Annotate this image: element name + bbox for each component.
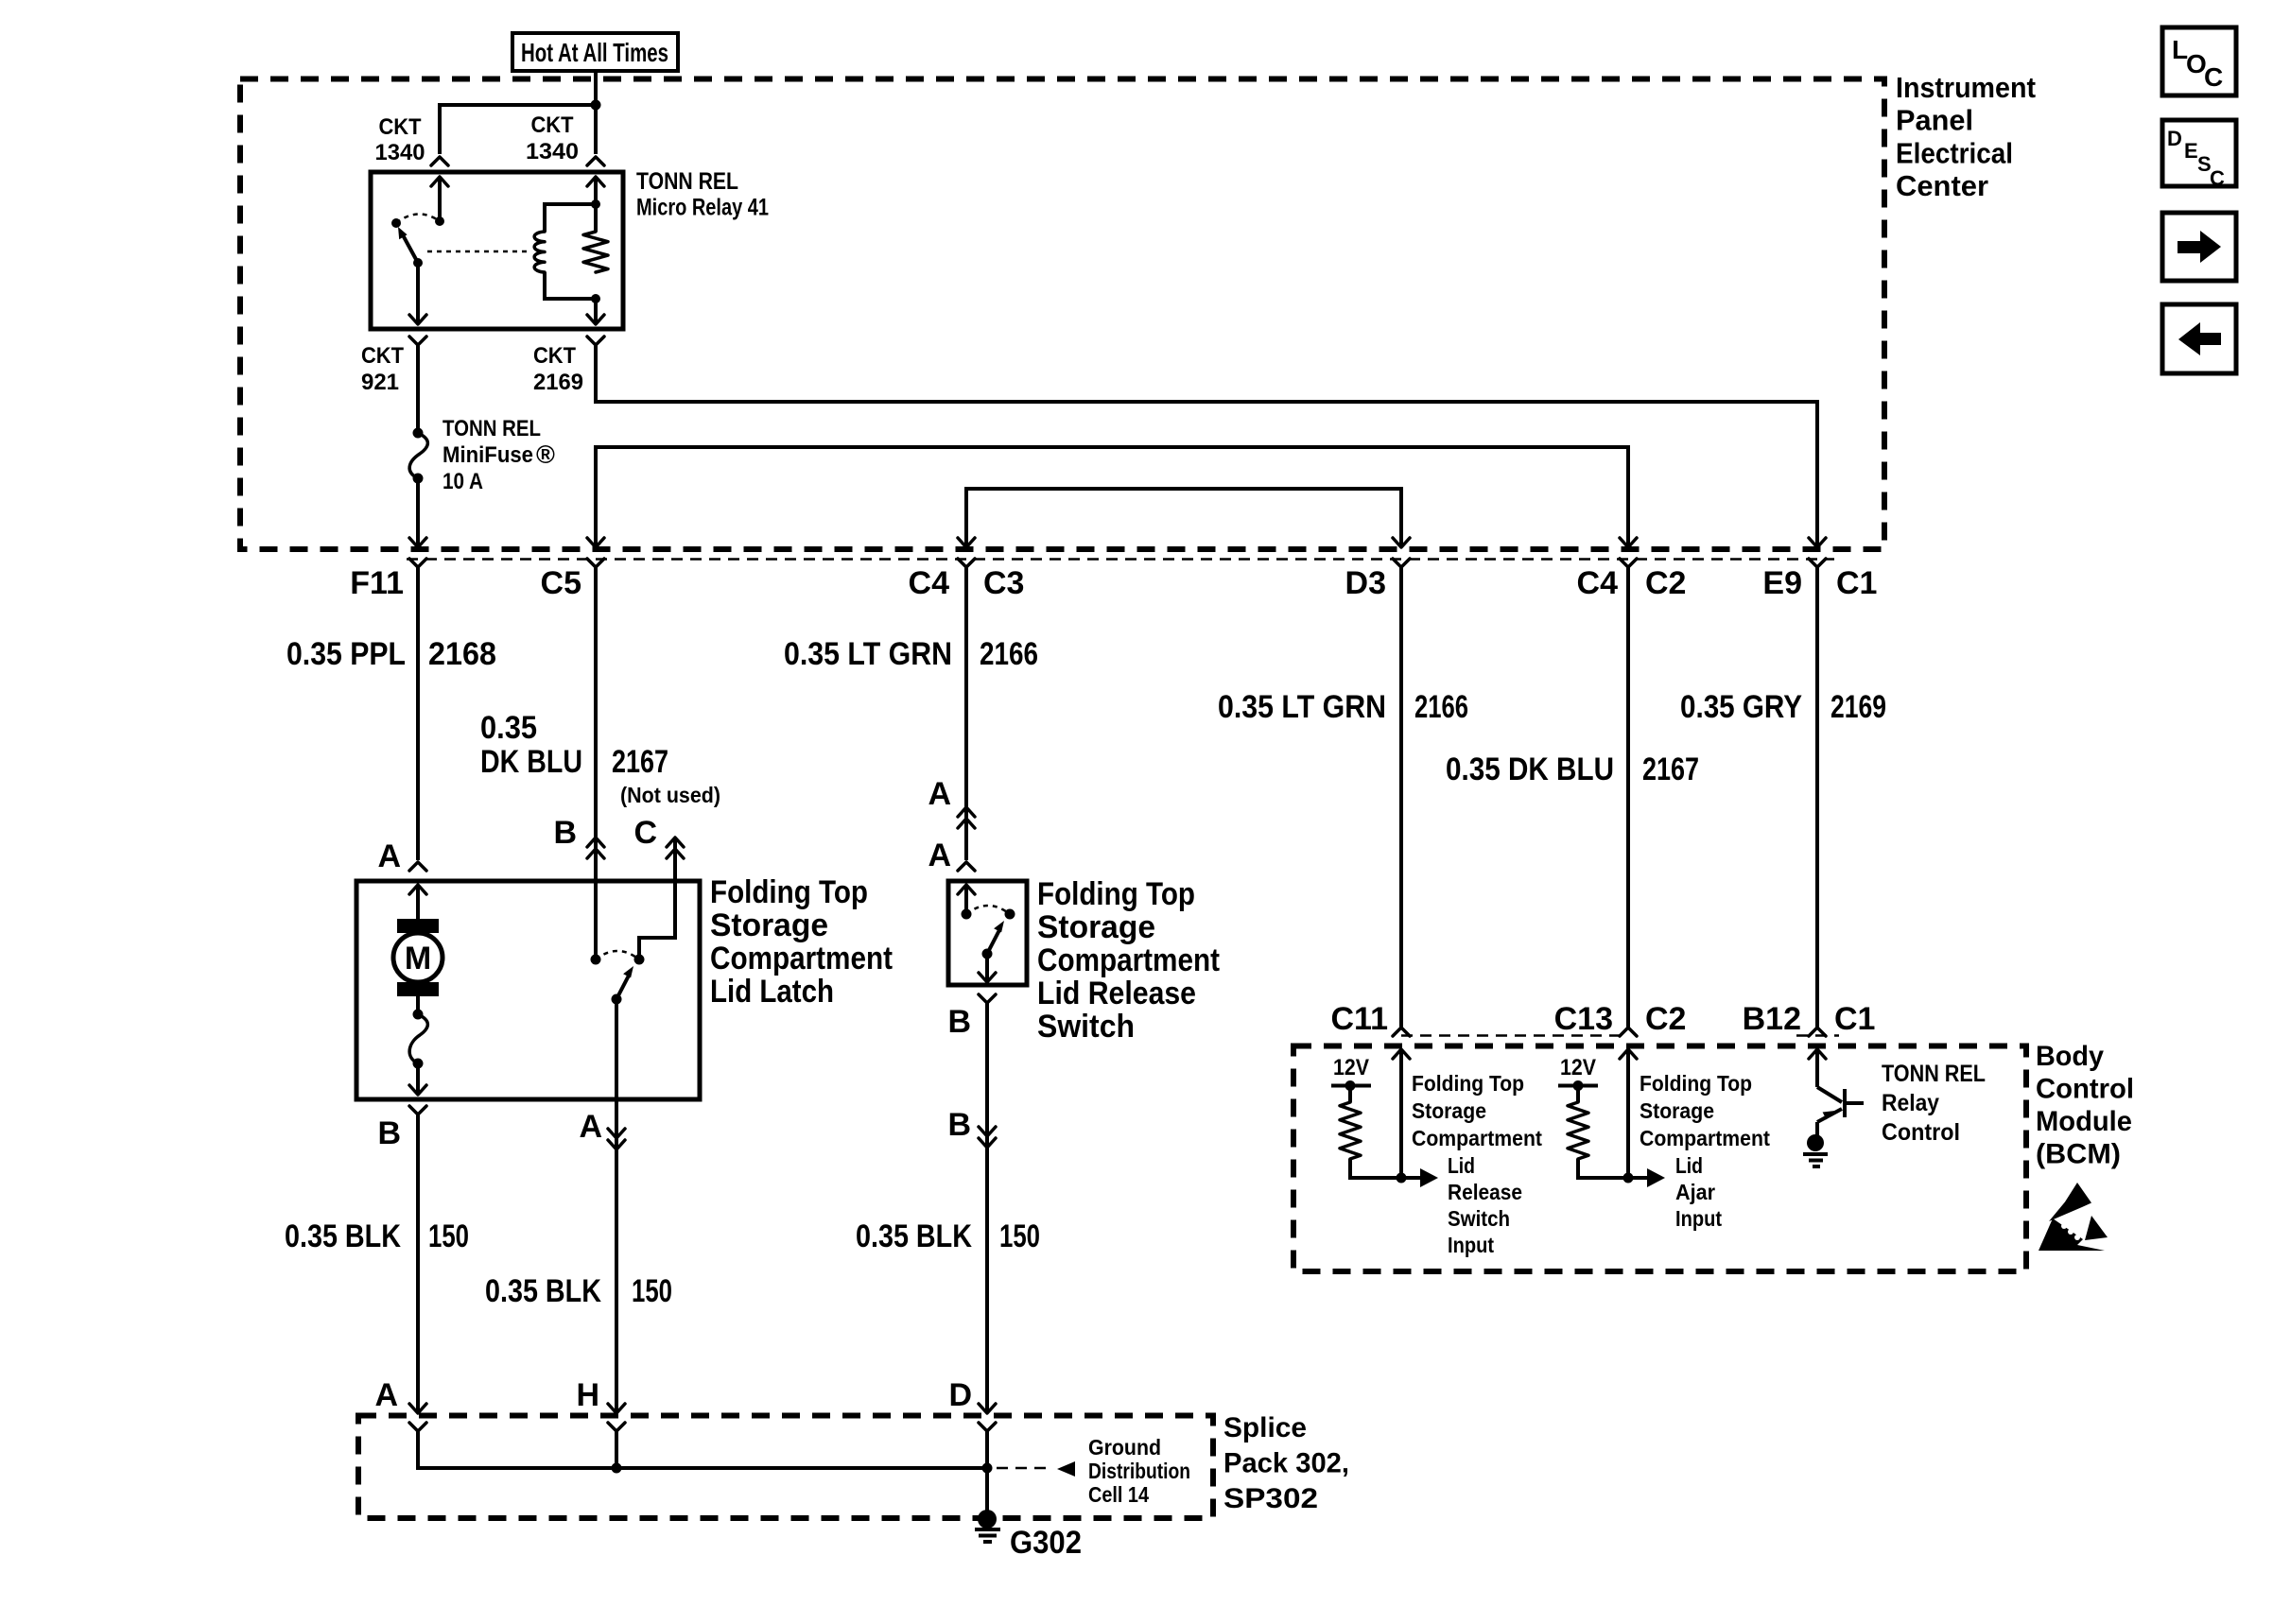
inline connector below relay right pin: [587, 337, 604, 345]
svg-text:B: B: [947, 1107, 971, 1143]
junction hot feed split: [591, 100, 601, 111]
svg-text:TONN REL: TONN REL: [442, 416, 541, 441]
svg-text:CKT: CKT: [361, 343, 404, 369]
svg-text:2167: 2167: [1642, 752, 1699, 787]
svg-text:M: M: [405, 941, 431, 976]
splice entry arrow x=1044: [979, 1404, 996, 1413]
inline connector at splice pin x=652: [608, 1423, 625, 1431]
svg-text:0.35 LT GRN: 0.35 LT GRN: [1218, 689, 1386, 725]
svg-text:G302: G302: [1010, 1525, 1082, 1561]
svg-text:Input: Input: [1448, 1233, 1494, 1257]
svg-text:Folding Top: Folding Top: [710, 874, 868, 910]
svg-text:Switch: Switch: [1037, 1009, 1135, 1045]
svg-text:Compartment: Compartment: [1640, 1126, 1770, 1150]
motor M (latch): [393, 885, 442, 996]
svg-text:Control: Control: [2036, 1074, 2134, 1105]
svg-text:12V: 12V: [1560, 1055, 1596, 1080]
svg-text:2168: 2168: [428, 636, 496, 672]
wire LT GRN run C3 to D3: [966, 489, 1401, 546]
label Body Control Module (BCM): [2036, 1041, 2134, 1170]
svg-text:Micro Relay 41: Micro Relay 41: [636, 195, 769, 221]
transistor TONN REL relay control driver: [1809, 1049, 1864, 1135]
svg-text:(BCM): (BCM): [2036, 1139, 2121, 1170]
wire C3 to release switch pin A: [964, 567, 968, 860]
inline connector at splice pin x=1044: [979, 1423, 996, 1431]
wire C5 to latch pin B: [594, 567, 598, 959]
svg-text:D: D: [2167, 127, 2182, 150]
connector line below IPEC: [407, 558, 1834, 561]
svg-text:C5: C5: [541, 565, 581, 601]
inline connector at relay left pin: [431, 157, 448, 165]
svg-text:A: A: [579, 1109, 602, 1145]
svg-text:Folding Top: Folding Top: [1640, 1071, 1752, 1096]
wire release switch B to splice D: [985, 1003, 989, 1411]
svg-text:Lid Latch: Lid Latch: [710, 974, 834, 1010]
svg-text:Ground: Ground: [1088, 1435, 1161, 1460]
wire fuse to F11: [416, 478, 420, 545]
inline connector at splice pin x=442: [409, 1423, 426, 1431]
svg-text:F11: F11: [350, 565, 404, 601]
relay resistor: [583, 232, 608, 272]
splice junction D: [982, 1463, 993, 1474]
svg-text:A: A: [928, 776, 951, 812]
svg-text:Hot At All Times: Hot At All Times: [521, 38, 668, 67]
label Folding Top Storage Compartment Lid Latch: [710, 874, 893, 1010]
release switch contacts and blade: [958, 885, 1015, 982]
relay switch (pins 30/87): [391, 177, 448, 324]
svg-text:1340: 1340: [526, 139, 579, 164]
inline connector at release switch pin A: [958, 862, 975, 871]
svg-text:A: A: [928, 838, 951, 873]
label Lid Ajar Input: [1675, 1153, 1722, 1231]
svg-text:Compartment: Compartment: [710, 941, 893, 976]
label CKT 1340 (right): [526, 112, 579, 164]
svg-text:Compartment: Compartment: [1037, 942, 1220, 978]
icon forward arrow: [2162, 213, 2236, 281]
inline connector at relay right pin: [587, 157, 604, 165]
wire CKT 921 to fuse: [416, 345, 420, 433]
svg-text:Module: Module: [2036, 1106, 2132, 1137]
Folding Top Storage Compartment Lid Latch box: [356, 881, 700, 1099]
svg-text:Instrument: Instrument: [1896, 71, 2036, 104]
svg-text:®: ®: [536, 441, 555, 469]
svg-text:2169: 2169: [533, 370, 583, 395]
inline connector below release switch pin B: [979, 994, 996, 1003]
svg-text:Panel: Panel: [1896, 104, 1973, 137]
BCM 12V pull-up resistor (lid ajar input): [1558, 1055, 1628, 1178]
fuse TONN REL MiniFuse 10 A: [409, 428, 427, 484]
svg-text:2167: 2167: [612, 744, 668, 780]
svg-text:12V: 12V: [1333, 1055, 1369, 1080]
splice junction H: [612, 1463, 622, 1474]
svg-text:921: 921: [361, 370, 399, 395]
label TONN REL Relay Control: [1882, 1061, 1986, 1146]
label CKT 2169: [533, 343, 583, 395]
svg-text:2166: 2166: [1414, 689, 1468, 725]
relay coil: [534, 177, 604, 299]
svg-text:E: E: [2184, 139, 2198, 163]
svg-text:Storage: Storage: [1640, 1098, 1714, 1123]
svg-text:C1: C1: [1834, 1001, 1875, 1037]
svg-text:C4: C4: [909, 565, 950, 601]
break in C wire: [667, 838, 684, 858]
svg-text:CKT: CKT: [533, 343, 576, 369]
svg-text:Relay: Relay: [1882, 1090, 1939, 1116]
svg-text:0.35 GRY: 0.35 GRY: [1680, 689, 1802, 725]
wire left branch to relay coil-side pin: [440, 105, 596, 154]
svg-text:0.35 PPL: 0.35 PPL: [286, 636, 406, 672]
Splice Pack dashed box: [358, 1416, 1213, 1519]
Body Control Module dashed box: [1293, 1046, 2026, 1272]
break in latch ground wire: [608, 1129, 625, 1149]
svg-text:Switch: Switch: [1448, 1206, 1510, 1231]
svg-text:Release: Release: [1448, 1180, 1522, 1204]
ESD sensitivity symbol: [2039, 1183, 2108, 1251]
svg-text:D: D: [948, 1377, 972, 1413]
inline connector at IPEC pin x=1482: [1393, 559, 1410, 567]
splice bus wire: [418, 1431, 987, 1468]
svg-text:Storage: Storage: [710, 907, 828, 943]
icon back arrow: [2162, 304, 2236, 373]
wire C2 to BCM C13: [1626, 567, 1630, 1028]
svg-text:Pack 302,: Pack 302,: [1223, 1448, 1349, 1479]
svg-text:C4: C4: [1577, 565, 1619, 601]
relay coil/resistor lower node to pin 85: [587, 294, 604, 324]
svg-text:150: 150: [632, 1273, 672, 1309]
svg-text:Body: Body: [2036, 1041, 2104, 1072]
svg-text:B12: B12: [1743, 1001, 1801, 1037]
break in release ground wire: [979, 1127, 996, 1148]
svg-text:Folding Top: Folding Top: [1412, 1071, 1524, 1096]
svg-text:C13: C13: [1554, 1001, 1613, 1037]
svg-text:E9: E9: [1762, 565, 1802, 601]
svg-text:Input: Input: [1675, 1206, 1722, 1231]
svg-text:B: B: [947, 1004, 971, 1040]
wire F11 to latch pin A: [416, 567, 420, 860]
svg-text:Lid: Lid: [1448, 1153, 1475, 1178]
label 0.35 LT GRN 2166 (D3 wire): [1218, 689, 1468, 725]
Folding Top Storage Compartment Lid Release Switch box: [948, 881, 1027, 985]
splice entry arrow x=442: [409, 1404, 426, 1413]
svg-text:C2: C2: [1645, 1001, 1686, 1037]
label 0.35 LT GRN 2166 (C3 wire): [784, 636, 1038, 672]
label Lid Release Switch Input: [1448, 1153, 1522, 1257]
wire D3 to BCM C11: [1399, 567, 1403, 1028]
svg-text:0.35 BLK: 0.35 BLK: [485, 1273, 601, 1309]
svg-text:Center: Center: [1896, 169, 1988, 202]
break in A wire: [958, 807, 975, 828]
label 0.35 BLK 150 (release switch B): [856, 1218, 1040, 1254]
svg-text:C3: C3: [983, 565, 1024, 601]
svg-text:Ajar: Ajar: [1675, 1180, 1715, 1204]
svg-text:0.35: 0.35: [480, 710, 537, 746]
svg-text:C1: C1: [1836, 565, 1877, 601]
svg-text:Splice: Splice: [1223, 1412, 1307, 1443]
relay internal dashed link: [427, 251, 528, 253]
svg-text:1340: 1340: [375, 140, 425, 165]
label 0.35 DK BLU 2167 (C5 wire): [480, 710, 668, 780]
svg-text:C: C: [2210, 166, 2225, 190]
wire hot feed: [594, 71, 598, 154]
inline connector at IPEC pin x=442: [409, 559, 426, 567]
svg-text:A: A: [377, 838, 401, 874]
svg-text:TONN REL: TONN REL: [1882, 1061, 1986, 1087]
svg-text:D3: D3: [1345, 565, 1386, 601]
relay TONN REL Micro Relay 41 box: [371, 172, 623, 329]
Instrument Panel Electrical Center dashed box: [240, 79, 1884, 550]
wire DK BLU run C5 to C4/C2: [596, 447, 1628, 546]
svg-text:SP302: SP302: [1223, 1483, 1318, 1514]
splice entry arrow x=652: [608, 1404, 625, 1413]
label 0.35 GRY 2169: [1680, 689, 1886, 725]
svg-text:DK BLU: DK BLU: [480, 744, 582, 780]
svg-text:Folding Top: Folding Top: [1037, 876, 1195, 912]
latch motor thermal link: [409, 996, 427, 1095]
ground distribution reference arrow: [997, 1461, 1075, 1477]
inline connector below relay left pin: [409, 337, 426, 345]
label Instrument Panel Electrical Center: [1896, 71, 2036, 202]
label CKT 1340 (left): [375, 114, 425, 165]
svg-text:0.35 DK BLU: 0.35 DK BLU: [1446, 752, 1614, 787]
svg-text:A: A: [374, 1377, 398, 1413]
label Folding Top Storage Compartment (ajar input): [1640, 1071, 1770, 1150]
svg-text:2166: 2166: [980, 636, 1038, 672]
power label "Hot At All Times": [512, 33, 678, 71]
connector line above BCM: [1401, 1034, 1839, 1037]
svg-text:Distribution: Distribution: [1088, 1459, 1190, 1483]
svg-text:B: B: [377, 1115, 401, 1151]
label 0.35 BLK 150 (latch A): [485, 1273, 672, 1309]
svg-text:B: B: [553, 815, 577, 851]
svg-text:Storage: Storage: [1412, 1098, 1486, 1123]
svg-text:CKT: CKT: [379, 114, 422, 140]
svg-text:10 A: 10 A: [442, 469, 483, 494]
label 0.35 BLK 150 (latch B): [285, 1218, 469, 1254]
svg-text:0.35 BLK: 0.35 BLK: [285, 1218, 401, 1254]
wire CKT 2169 / GRY run to E9: [596, 345, 1817, 545]
label TONN REL MiniFuse 10 A: [442, 416, 555, 494]
svg-text:H: H: [576, 1377, 599, 1413]
svg-text:Cell 14: Cell 14: [1088, 1482, 1149, 1507]
svg-text:Storage: Storage: [1037, 909, 1155, 945]
svg-text:150: 150: [428, 1218, 469, 1254]
BCM 12V pull-up resistor (lid release input): [1331, 1055, 1401, 1178]
svg-text:MiniFuse: MiniFuse: [442, 442, 533, 468]
label Ground Distribution Cell 14: [1088, 1435, 1190, 1507]
svg-text:Compartment: Compartment: [1412, 1126, 1542, 1150]
svg-text:Lid Release: Lid Release: [1037, 976, 1196, 1011]
label 0.35 DK BLU 2167 (C2 wire): [1446, 752, 1699, 787]
svg-text:Lid: Lid: [1675, 1153, 1703, 1178]
label Splice Pack 302, SP302: [1223, 1412, 1349, 1514]
svg-text:Control: Control: [1882, 1119, 1960, 1146]
wire BCM C13 to node: [1620, 1049, 1637, 1183]
svg-text:CKT: CKT: [531, 112, 574, 138]
svg-text:2169: 2169: [1831, 689, 1886, 725]
svg-text:Electrical: Electrical: [1896, 136, 2013, 169]
inline connector at IPEC pin x=630: [587, 559, 604, 567]
svg-text:C: C: [2204, 62, 2223, 92]
label TONN REL Micro Relay 41: [636, 168, 769, 221]
inline connector below latch pin B: [409, 1106, 426, 1114]
icon DESC: [2162, 120, 2236, 190]
latch switch: [591, 951, 645, 1099]
svg-text:TONN REL: TONN REL: [636, 168, 738, 195]
wire E9/C1 to BCM C1: [1815, 567, 1819, 1028]
inline connector at IPEC pin x=1722: [1620, 559, 1637, 567]
wire latch pin C stub (not used): [639, 839, 675, 959]
label Folding Top Storage Compartment Lid Release Switch: [1037, 876, 1220, 1045]
svg-text:0.35 BLK: 0.35 BLK: [856, 1218, 972, 1254]
label 0.35 PPL 2168: [286, 636, 496, 672]
wire latch pin A to splice H: [615, 1099, 618, 1411]
svg-text:150: 150: [999, 1218, 1040, 1254]
ground G302: [975, 1468, 1000, 1542]
transistor emitter ground: [1803, 1134, 1828, 1166]
svg-text:C2: C2: [1645, 565, 1686, 601]
svg-text:C11: C11: [1331, 1001, 1389, 1037]
svg-text:0.35 LT GRN: 0.35 LT GRN: [784, 636, 952, 672]
label Folding Top Storage Compartment (release input): [1412, 1071, 1542, 1150]
icon LOC: [2162, 27, 2236, 95]
svg-text:(Not used): (Not used): [620, 783, 720, 807]
BCM signal arrow (lid ajar): [1628, 1168, 1665, 1187]
label CKT 921: [361, 343, 404, 395]
inline connector at latch pin A: [409, 862, 426, 871]
svg-text:C: C: [633, 815, 657, 851]
wire BCM C11 to node: [1393, 1049, 1410, 1183]
BCM signal arrow (lid release): [1401, 1168, 1438, 1187]
inline connector at IPEC pin x=1922: [1809, 559, 1826, 567]
break in B wire: [587, 838, 604, 858]
inline connector at IPEC pin x=1022: [958, 559, 975, 567]
